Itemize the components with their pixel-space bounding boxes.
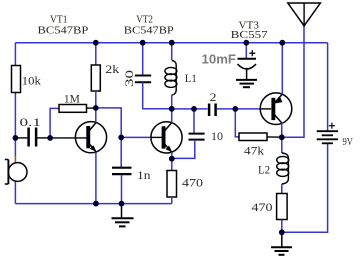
node VT2 base tee [118,135,124,141]
wire L2 bottom [281,184,283,194]
wire VT2 collector [171,109,173,123]
wire node to VT2 base [121,136,151,138]
svg-text:9V: 9V [343,136,354,148]
svg-text:0.1: 0.1 [20,117,42,129]
resistor R 47k [239,133,282,157]
svg-text:47k: 47k [244,145,264,157]
node mic-0.1 [13,135,19,141]
wire 470 bottom [171,197,173,204]
node VT2 emitter [169,156,175,162]
node base-47k [232,106,238,112]
resistor R 1M [59,93,96,112]
wire bottom node to battery [282,144,328,233]
transistor VT2 BC547BP [151,122,182,153]
node VT1 collector [93,105,99,111]
wire 2 to VT3 base [217,108,261,110]
wire L1 bottom [171,95,173,109]
node 0.1-1M-base [47,135,53,141]
capacitor C 1n [112,168,151,182]
wire red segment above mic [14,156,16,164]
svg-text:BC557: BC557 [231,29,269,41]
capacitor C 2 [209,92,217,116]
battery 9V [317,123,353,148]
node 470-battery-gnd [279,229,285,235]
ground G1 [112,204,134,227]
node rail-L1 [169,40,175,46]
svg-text:BC547BP: BC547BP [124,25,174,37]
wire VT1 collector to VT2 base [96,108,121,167]
ground G2 under 10mF [236,68,257,87]
wire 0.1 node up to 1M [50,108,59,137]
node rail-10mF [243,40,249,46]
transistor VT3 BC557 [260,93,292,125]
wire 47k tap [235,109,239,137]
wire 1n bottom [121,175,123,204]
wire tank net [172,108,208,110]
wire 470 to bottom node [281,220,283,233]
wire collector node to antenna [282,26,304,138]
wire VT1 emitter [95,152,97,204]
inductor L1 [165,43,197,95]
resistor R 470 (2) [252,194,288,220]
resistor R 10k [12,66,42,93]
wire 10k bottom to node [14,93,16,157]
antenna [288,3,321,26]
svg-text:10: 10 [211,131,223,143]
svg-text:1M: 1M [64,93,80,105]
svg-text:BC547BP: BC547BP [38,25,89,37]
svg-text:L1: L1 [185,73,197,85]
capacitor C 10mF electrolytic [202,43,257,69]
wire VT3 emitter up [281,43,283,95]
svg-text:10mF: 10mF [202,53,237,67]
wire emitter node to 470 [171,159,173,171]
svg-text:VT2: VT2 [136,13,153,25]
node rail-30 [140,40,146,46]
wire VT3 collector down [281,123,283,137]
microphone MIC [5,160,27,185]
wire 30 bottom to tank [143,82,172,109]
svg-text:10k: 10k [22,76,41,88]
node VT3c-L2 [279,134,285,140]
capacitor C 0.1 [15,117,50,147]
node rail-2k [93,40,99,46]
svg-text:30: 30 [124,70,136,87]
resistor R 2k [91,43,119,108]
wire 10 bottom to emitter node [172,140,195,158]
wire VT1 base [50,137,87,139]
node rail-VT3e [279,40,285,46]
capacitor C 30 [124,43,151,87]
inductor L2 [258,137,289,184]
resistor R 470 [167,171,203,198]
svg-text:2: 2 [210,92,217,104]
wire bottom ground bus [15,203,171,205]
svg-text:2k: 2k [105,64,119,76]
wire power rail [15,42,327,44]
svg-text:VT1: VT1 [50,13,68,25]
ground G3 bottom right [271,232,292,255]
svg-text:1n: 1n [137,170,151,182]
svg-text:470: 470 [182,177,203,189]
capacitor C 10 [189,109,224,143]
wire VT1 collector [95,108,97,123]
wire mic bottom [14,181,16,204]
svg-text:470: 470 [252,202,273,214]
svg-text:L2: L2 [258,165,270,177]
node tank-10 [191,106,197,112]
wire VT2 emitter [171,152,173,159]
transistor VT1 BC547BP [75,122,106,153]
wire left vertical to 10k [14,43,16,66]
wire rail to battery top [327,43,329,131]
node tank-L1 [169,106,175,112]
node bus-VT1e [93,201,99,207]
node bus-1n-gnd [119,201,125,207]
